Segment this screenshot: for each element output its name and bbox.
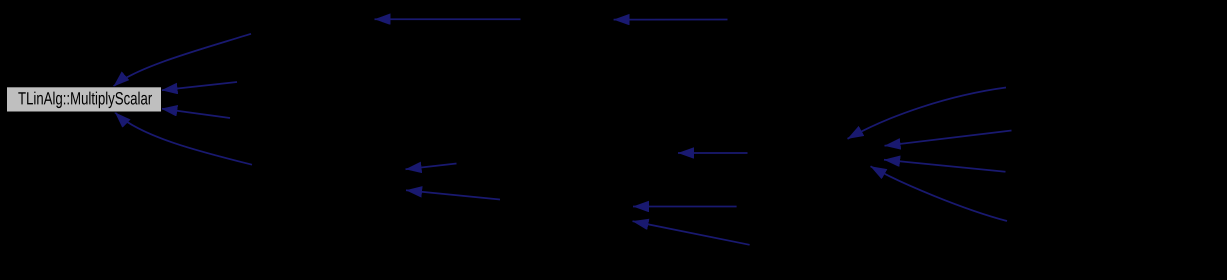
edge E3 line into node right edge lower <box>161 109 230 118</box>
edge E9 horizontal arrow middle <box>678 152 748 154</box>
edge E10 horizontal arrow lower middle <box>633 206 737 208</box>
edge E6 top-right horizontal arrow <box>614 19 728 21</box>
edge E13 line right cluster upper <box>885 131 1012 146</box>
edge E11 slanted arrow lower middle <box>633 221 750 245</box>
edge E15 S-curve from bottom right <box>871 166 1008 221</box>
edge E1 curve into node top edge <box>114 34 252 87</box>
edge E12 curve from top right <box>848 88 1007 139</box>
edge E8 arrow mid-left lower <box>406 190 500 199</box>
node TLinAlg::MultiplyScalar <box>7 87 162 112</box>
edge E5 top-left horizontal arrow <box>375 18 521 20</box>
edge E2 line into node right edge upper <box>162 82 238 90</box>
edge E4 curve into node bottom edge <box>115 112 252 164</box>
edge E14 line right cluster lower <box>884 160 1006 172</box>
edge E7 short arrow mid-left <box>406 164 457 170</box>
